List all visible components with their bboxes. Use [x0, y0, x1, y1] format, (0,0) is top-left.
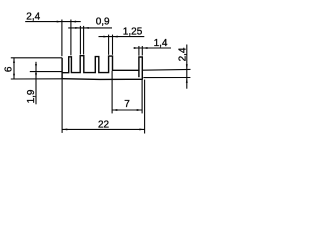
svg-text:7: 7	[124, 99, 130, 110]
svg-text:1,25: 1,25	[123, 26, 143, 37]
svg-text:1,4: 1,4	[154, 38, 168, 49]
svg-text:6: 6	[3, 66, 14, 72]
svg-text:1,9: 1,9	[26, 89, 37, 103]
svg-text:0,9: 0,9	[96, 17, 110, 28]
svg-text:2,4: 2,4	[178, 47, 189, 61]
svg-text:22: 22	[98, 119, 110, 130]
svg-text:2,4: 2,4	[26, 11, 40, 22]
